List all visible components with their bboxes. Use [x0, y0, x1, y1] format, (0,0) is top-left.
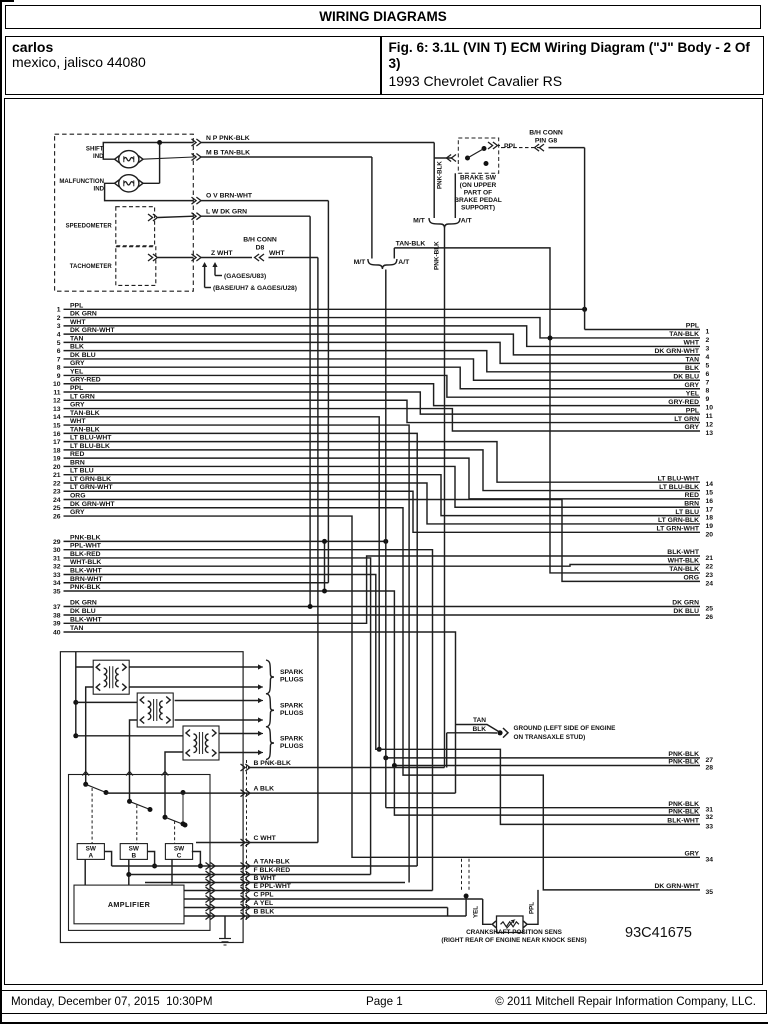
svg-text:LT GRN-BLK: LT GRN-BLK	[658, 517, 699, 524]
svg-text:B/H CONN: B/H CONN	[529, 130, 563, 137]
svg-text:21: 21	[706, 555, 714, 562]
svg-text:E PPL-WHT: E PPL-WHT	[254, 883, 292, 890]
svg-text:17: 17	[53, 439, 61, 446]
svg-text:35: 35	[706, 889, 714, 896]
svg-text:25: 25	[53, 505, 61, 512]
svg-text:14: 14	[706, 481, 714, 488]
svg-text:PLUGS: PLUGS	[280, 710, 304, 717]
svg-text:F BLK-RED: F BLK-RED	[254, 867, 291, 874]
svg-text:MALFUNCTION: MALFUNCTION	[59, 178, 104, 185]
svg-text:31: 31	[706, 807, 714, 814]
svg-text:4: 4	[706, 354, 710, 361]
svg-text:16: 16	[53, 431, 61, 438]
svg-text:GRY: GRY	[70, 360, 85, 367]
svg-text:BRN-WHT: BRN-WHT	[70, 576, 103, 583]
svg-text:PNK-BLK: PNK-BLK	[434, 241, 441, 270]
svg-text:26: 26	[53, 513, 61, 520]
svg-text:15: 15	[706, 490, 714, 497]
svg-text:PIN G8: PIN G8	[535, 138, 558, 145]
svg-text:22: 22	[53, 480, 61, 487]
svg-text:SW: SW	[129, 846, 140, 853]
svg-text:31: 31	[53, 555, 61, 562]
svg-text:GRY-RED: GRY-RED	[70, 377, 101, 384]
svg-text:DK BLU: DK BLU	[673, 373, 699, 380]
svg-text:IND: IND	[94, 186, 105, 193]
svg-text:GROUND (LEFT SIDE OF ENGINE: GROUND (LEFT SIDE OF ENGINE	[514, 725, 617, 732]
svg-text:BLK-WHT: BLK-WHT	[667, 549, 700, 556]
svg-text:BRAKE PEDAL: BRAKE PEDAL	[454, 197, 502, 204]
svg-text:LT GRN: LT GRN	[70, 393, 95, 400]
svg-text:29: 29	[53, 539, 61, 546]
svg-text:B BLK: B BLK	[254, 909, 275, 916]
svg-text:TAN: TAN	[70, 625, 84, 632]
svg-text:DK GRN-WHT: DK GRN-WHT	[654, 348, 699, 355]
svg-text:4: 4	[57, 332, 61, 339]
svg-text:PPL: PPL	[70, 302, 83, 309]
svg-text:B WHT: B WHT	[254, 875, 277, 882]
svg-text:B/H CONN: B/H CONN	[243, 237, 277, 244]
svg-text:26: 26	[706, 614, 714, 621]
svg-text:YEL: YEL	[70, 368, 83, 375]
svg-text:LT BLU: LT BLU	[675, 509, 699, 516]
svg-text:10: 10	[706, 405, 714, 412]
svg-text:20: 20	[53, 464, 61, 471]
svg-text:LT GRN: LT GRN	[674, 416, 699, 423]
svg-text:D8: D8	[256, 245, 265, 252]
svg-text:A/T: A/T	[461, 218, 473, 225]
svg-text:8: 8	[57, 365, 61, 372]
svg-text:2: 2	[57, 315, 61, 322]
svg-text:30: 30	[53, 547, 61, 554]
svg-text:DK BLU: DK BLU	[70, 352, 96, 359]
svg-text:37: 37	[53, 604, 61, 611]
svg-text:DK GRN: DK GRN	[70, 311, 97, 318]
svg-text:39: 39	[53, 621, 61, 628]
svg-text:2: 2	[706, 337, 710, 344]
svg-text:11: 11	[53, 389, 60, 396]
svg-text:PPL: PPL	[686, 407, 699, 414]
svg-text:TAN: TAN	[70, 335, 84, 342]
svg-text:A/T: A/T	[398, 259, 410, 266]
svg-text:DK BLU: DK BLU	[70, 608, 96, 615]
svg-text:RED: RED	[685, 492, 699, 499]
svg-text:14: 14	[53, 414, 61, 421]
svg-text:SPARK: SPARK	[280, 703, 303, 710]
svg-text:PPL: PPL	[70, 385, 83, 392]
svg-text:PNK-BLK: PNK-BLK	[668, 801, 699, 808]
svg-text:DK BLU: DK BLU	[673, 608, 699, 615]
svg-text:GRY: GRY	[70, 509, 85, 516]
svg-text:TAN-BLK: TAN-BLK	[396, 240, 426, 247]
svg-text:8: 8	[706, 388, 710, 395]
svg-text:PNK-BLK: PNK-BLK	[70, 534, 101, 541]
svg-text:SUPPORT): SUPPORT)	[461, 205, 495, 212]
svg-text:93C41675: 93C41675	[625, 925, 692, 941]
svg-text:A YEL: A YEL	[254, 900, 274, 907]
svg-text:PPL: PPL	[529, 902, 536, 914]
svg-text:A: A	[88, 853, 93, 860]
svg-text:N P PNK-BLK: N P PNK-BLK	[206, 135, 250, 142]
svg-text:B PNK-BLK: B PNK-BLK	[254, 760, 291, 767]
svg-text:22: 22	[706, 563, 714, 570]
svg-text:LT BLU-WHT: LT BLU-WHT	[658, 475, 700, 482]
svg-text:27: 27	[706, 757, 714, 764]
svg-text:38: 38	[53, 612, 61, 619]
svg-text:TAN: TAN	[686, 357, 700, 364]
svg-text:15: 15	[53, 422, 61, 429]
svg-text:28: 28	[706, 765, 714, 772]
svg-text:LT BLU: LT BLU	[70, 468, 94, 475]
svg-text:PLUGS: PLUGS	[280, 677, 304, 684]
svg-text:LT BLU-BLK: LT BLU-BLK	[659, 484, 699, 491]
svg-text:SW: SW	[174, 846, 185, 853]
svg-text:BRN: BRN	[70, 459, 85, 466]
svg-text:19: 19	[53, 456, 61, 463]
svg-text:SHIFT: SHIFT	[86, 146, 104, 153]
svg-text:SPARK: SPARK	[280, 669, 303, 676]
svg-text:25: 25	[706, 606, 714, 613]
svg-text:LT GRN-BLK: LT GRN-BLK	[70, 476, 111, 483]
svg-text:DK GRN: DK GRN	[672, 600, 699, 607]
svg-text:7: 7	[57, 356, 61, 363]
svg-text:18: 18	[53, 447, 61, 454]
svg-text:24: 24	[53, 497, 61, 504]
svg-text:32: 32	[53, 564, 61, 571]
svg-text:ON TRANSAXLE STUD): ON TRANSAXLE STUD)	[514, 734, 586, 741]
svg-text:WHT: WHT	[269, 250, 285, 257]
svg-text:SW: SW	[86, 846, 97, 853]
svg-text:PLUGS: PLUGS	[280, 743, 304, 750]
svg-text:PPL: PPL	[686, 323, 699, 330]
svg-text:GRY: GRY	[685, 424, 700, 431]
svg-text:(RIGHT REAR OF ENGINE NEAR KNO: (RIGHT REAR OF ENGINE NEAR KNOCK SENS)	[441, 937, 586, 944]
svg-text:DK GRN-WHT: DK GRN-WHT	[70, 327, 115, 334]
svg-text:LT BLU-BLK: LT BLU-BLK	[70, 443, 110, 450]
svg-text:6: 6	[57, 348, 61, 355]
svg-text:L W DK GRN: L W DK GRN	[206, 209, 247, 216]
svg-text:12: 12	[706, 422, 714, 429]
svg-text:9: 9	[706, 396, 710, 403]
svg-text:TAN-BLK: TAN-BLK	[70, 410, 100, 417]
svg-text:21: 21	[53, 472, 61, 479]
svg-text:BLK-WHT: BLK-WHT	[667, 818, 700, 825]
svg-text:11: 11	[706, 413, 713, 420]
svg-text:TAN-BLK: TAN-BLK	[669, 331, 699, 338]
svg-text:9: 9	[57, 373, 61, 380]
svg-text:BLK: BLK	[472, 726, 486, 733]
svg-text:5: 5	[57, 340, 61, 347]
svg-text:PNK-BLK: PNK-BLK	[70, 584, 101, 591]
svg-text:O V BRN-WHT: O V BRN-WHT	[206, 193, 253, 200]
svg-text:40: 40	[53, 629, 61, 636]
svg-text:Z WHT: Z WHT	[211, 250, 233, 257]
svg-text:34: 34	[706, 856, 714, 863]
svg-text:(ON UPPER: (ON UPPER	[460, 182, 497, 189]
svg-text:TAN-BLK: TAN-BLK	[669, 566, 699, 573]
svg-text:20: 20	[706, 531, 714, 538]
svg-text:35: 35	[53, 588, 61, 595]
svg-text:33: 33	[53, 572, 61, 579]
svg-text:(GAGES/U83): (GAGES/U83)	[224, 273, 266, 280]
svg-text:A BLK: A BLK	[254, 786, 275, 793]
svg-text:GRY-RED: GRY-RED	[668, 399, 699, 406]
svg-text:32: 32	[706, 814, 714, 821]
svg-text:PART OF: PART OF	[464, 190, 492, 197]
svg-text:M/T: M/T	[413, 218, 426, 225]
svg-text:IND: IND	[93, 153, 104, 160]
svg-text:GRY: GRY	[685, 851, 700, 858]
svg-text:BLK: BLK	[685, 365, 699, 372]
svg-text:WHT-BLK: WHT-BLK	[668, 558, 699, 565]
svg-text:3: 3	[706, 345, 710, 352]
svg-text:BLK-WHT: BLK-WHT	[70, 567, 103, 574]
svg-text:WHT: WHT	[70, 319, 86, 326]
svg-text:24: 24	[706, 580, 714, 587]
svg-text:BLK-WHT: BLK-WHT	[70, 616, 103, 623]
svg-text:12: 12	[53, 398, 61, 405]
svg-text:WHT: WHT	[684, 340, 700, 347]
svg-text:ORG: ORG	[70, 493, 85, 500]
svg-text:3: 3	[57, 323, 61, 330]
svg-text:BLK-RED: BLK-RED	[70, 551, 101, 558]
svg-text:10: 10	[53, 381, 61, 388]
svg-text:M/T: M/T	[354, 259, 367, 266]
svg-text:YEL: YEL	[473, 906, 480, 918]
svg-text:BLK: BLK	[70, 344, 84, 351]
svg-text:6: 6	[706, 371, 710, 378]
svg-text:AMPLIFIER: AMPLIFIER	[108, 900, 151, 909]
svg-text:TAN: TAN	[473, 717, 486, 724]
svg-text:A TAN-BLK: A TAN-BLK	[254, 859, 290, 866]
svg-text:16: 16	[706, 498, 714, 505]
svg-text:SPARK: SPARK	[280, 736, 303, 743]
svg-text:(BASE/UH7 & GAGES/U28): (BASE/UH7 & GAGES/U28)	[213, 285, 297, 292]
svg-text:TACHOMETER: TACHOMETER	[70, 264, 113, 270]
svg-text:13: 13	[53, 406, 61, 413]
svg-text:DK GRN: DK GRN	[70, 600, 97, 607]
svg-text:DK GRN-WHT: DK GRN-WHT	[70, 501, 115, 508]
svg-text:23: 23	[53, 489, 61, 496]
svg-text:5: 5	[706, 362, 710, 369]
svg-text:B: B	[131, 853, 136, 860]
svg-text:33: 33	[706, 823, 714, 830]
svg-text:WHT-BLK: WHT-BLK	[70, 559, 101, 566]
svg-text:M B TAN-BLK: M B TAN-BLK	[206, 150, 250, 157]
svg-text:GRY: GRY	[685, 382, 700, 389]
svg-text:SPEEDOMETER: SPEEDOMETER	[66, 224, 113, 230]
svg-text:PNK-BLK: PNK-BLK	[668, 808, 699, 815]
svg-text:PNK-BLK: PNK-BLK	[668, 759, 699, 766]
svg-text:WHT: WHT	[70, 418, 86, 425]
svg-text:DK GRN-WHT: DK GRN-WHT	[654, 883, 699, 890]
svg-text:18: 18	[706, 515, 714, 522]
svg-text:CRANKSHAFT POSITION SENS: CRANKSHAFT POSITION SENS	[466, 929, 563, 936]
svg-text:ORG: ORG	[684, 575, 699, 582]
svg-text:7: 7	[706, 379, 710, 386]
svg-text:GRY: GRY	[70, 402, 85, 409]
svg-text:17: 17	[706, 506, 714, 513]
svg-text:C WHT: C WHT	[254, 835, 277, 842]
svg-text:TAN-BLK: TAN-BLK	[70, 426, 100, 433]
svg-text:1: 1	[57, 307, 61, 314]
svg-text:C: C	[177, 853, 182, 860]
svg-text:PPL-WHT: PPL-WHT	[70, 543, 102, 550]
svg-text:PNK-BLK: PNK-BLK	[668, 751, 699, 758]
svg-text:RED: RED	[70, 451, 84, 458]
svg-text:C PPL: C PPL	[254, 892, 274, 899]
svg-text:34: 34	[53, 580, 61, 587]
svg-text:BRAKE SW: BRAKE SW	[460, 175, 497, 182]
svg-text:19: 19	[706, 523, 714, 530]
svg-text:13: 13	[706, 430, 714, 437]
svg-text:LT GRN-WHT: LT GRN-WHT	[70, 484, 113, 491]
svg-text:YEL: YEL	[686, 390, 699, 397]
svg-text:LT GRN-WHT: LT GRN-WHT	[656, 526, 699, 533]
svg-text:23: 23	[706, 572, 714, 579]
svg-text:PPL: PPL	[504, 143, 517, 150]
svg-text:LT BLU-WHT: LT BLU-WHT	[70, 435, 112, 442]
svg-text:BRN: BRN	[684, 500, 699, 507]
svg-text:1: 1	[706, 329, 710, 336]
svg-text:PNK-BLK: PNK-BLK	[437, 161, 444, 189]
